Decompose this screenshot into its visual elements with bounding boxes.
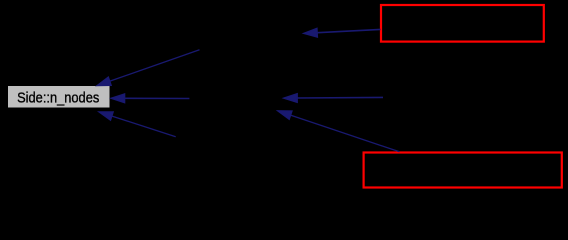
edge: middle caller -> Side::n_nodes bbox=[111, 94, 190, 103]
edge: upper caller -> Side::n_nodes bbox=[97, 50, 200, 86]
edge: red box top -> upper caller bbox=[303, 28, 380, 37]
svg-text:Side::n_nodes: Side::n_nodes bbox=[17, 89, 99, 106]
truncated node (red box, top right) bbox=[381, 5, 544, 42]
edge: lower caller -> Side::n_nodes bbox=[99, 112, 176, 137]
node Side::n_nodes bbox=[8, 86, 111, 109]
truncated node (red box, bottom right) bbox=[364, 153, 562, 188]
edge: red box bottom -> lower caller bbox=[277, 111, 399, 152]
edge: right hidden caller -> middle caller bbox=[283, 93, 383, 102]
